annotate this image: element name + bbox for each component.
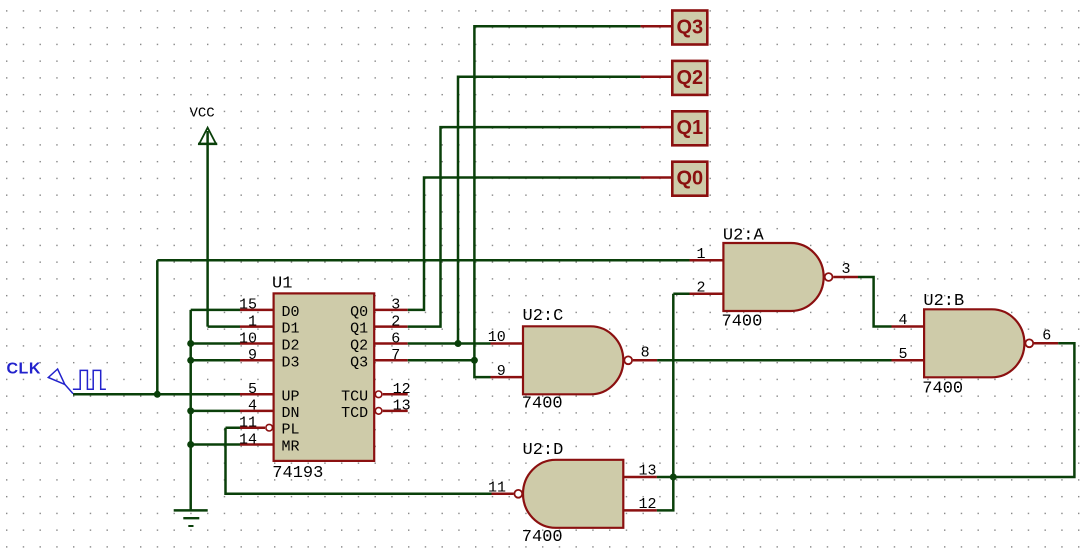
wire U2:D pin12 tie (657, 477, 673, 510)
pin 6 Q2 (374, 342, 408, 345)
node MR junction (187, 441, 194, 448)
svg-text:2: 2 (696, 279, 705, 296)
svg-text:D2: D2 (282, 338, 300, 355)
svg-text:CLK: CLK (7, 361, 41, 378)
pin 3 U2:A (833, 276, 858, 279)
svg-text:Q2: Q2 (676, 67, 703, 89)
svg-text:9: 9 (248, 347, 257, 364)
svg-text:D0: D0 (282, 304, 300, 321)
wire U2:C out to U2:B pin5 (657, 359, 891, 362)
ground (174, 510, 208, 526)
svg-text:11: 11 (239, 415, 257, 432)
svg-text:4: 4 (248, 398, 257, 415)
pin 2 U2:A (690, 292, 724, 295)
svg-text:6: 6 (391, 330, 400, 347)
svg-text:VCC: VCC (190, 106, 215, 122)
svg-text:7400: 7400 (522, 395, 563, 414)
svg-text:U2:A: U2:A (723, 227, 765, 246)
chip U1 74193 (274, 293, 375, 461)
terminal Q1 (641, 126, 673, 129)
nand gate U2:C 7400 (522, 307, 632, 413)
pin 1 D1 (240, 325, 274, 328)
svg-text:4: 4 (898, 312, 907, 329)
wire D0/D2/D3/DN/MR vertical bus to ground (189, 310, 192, 511)
node Q2 junction (455, 340, 462, 347)
pin 5 UP (240, 393, 274, 396)
generator CLK symbol (7, 361, 106, 394)
wire CLK net vertical riser (156, 260, 159, 394)
svg-text:TCU: TCU (341, 388, 368, 405)
pin 4 DN (240, 410, 274, 413)
pin 9 D3 (240, 359, 274, 362)
svg-text:7: 7 (391, 347, 400, 364)
svg-text:7400: 7400 (922, 380, 963, 399)
svg-text:PL: PL (282, 422, 300, 439)
pin 2 Q1 (374, 325, 408, 328)
pin 15 D0 (240, 309, 274, 312)
svg-text:U2:D: U2:D (523, 441, 564, 460)
pin 3 Q0 (374, 309, 408, 312)
svg-text:74193: 74193 (272, 464, 323, 483)
wire D3 branch (191, 359, 240, 362)
pin 6 U2:B (1034, 342, 1058, 345)
svg-text:Q3: Q3 (676, 16, 703, 38)
svg-text:3: 3 (842, 261, 851, 278)
svg-text:Q3: Q3 (350, 354, 368, 371)
nand gate U2:D 7400 (mirrored) (514, 441, 623, 547)
wire U2:A out to U2:B pin4 (858, 277, 892, 327)
pin 8 U2:C (633, 359, 657, 362)
svg-text:U1: U1 (272, 274, 292, 293)
svg-text:D3: D3 (282, 354, 300, 371)
svg-text:DN: DN (282, 405, 300, 422)
svg-text:8: 8 (641, 344, 650, 361)
svg-text:7400: 7400 (522, 528, 563, 547)
svg-text:UP: UP (282, 388, 300, 405)
svg-text:15: 15 (239, 297, 257, 314)
svg-text:9: 9 (497, 363, 506, 380)
node D2 junction (187, 340, 194, 347)
terminal Q3 (641, 25, 673, 28)
svg-text:10: 10 (239, 330, 257, 347)
pin 13 U2:D (623, 476, 657, 479)
wire Q3 to terminal and U2:C pin9 (408, 26, 641, 377)
svg-text:Q1: Q1 (676, 117, 703, 139)
node DN junction (187, 407, 194, 414)
terminal Q0 (641, 176, 673, 179)
wire CLK net horizontal to UP (73, 393, 240, 396)
wire U2:B out feedback (673, 343, 1074, 477)
terminal Q2 (641, 75, 673, 78)
pin 4 U2:B (892, 325, 925, 328)
pin 13 TCD (375, 408, 382, 415)
wire Q2 to terminal and U2:C pin10 (408, 77, 641, 344)
pin 7 Q3 (374, 359, 408, 362)
nand gate U2:B 7400 (922, 292, 1033, 399)
svg-text:11: 11 (488, 479, 506, 496)
wire MR branch (191, 443, 240, 446)
pin 12 TCU (375, 391, 382, 398)
svg-text:1: 1 (248, 313, 257, 330)
power VCC symbol (190, 106, 218, 327)
pin 10 D2 (240, 342, 274, 345)
wire net to U2:A pin 1 (157, 259, 689, 262)
wire D0 branch (191, 309, 240, 312)
pin 5 U2:B (892, 359, 925, 362)
node CLK/UP junction (154, 391, 161, 398)
svg-text:TCD: TCD (341, 405, 368, 422)
node Q3 junction (471, 357, 478, 364)
svg-text:Q2: Q2 (350, 338, 368, 355)
svg-text:Q1: Q1 (350, 321, 368, 338)
pin 1 U2:A (690, 259, 724, 262)
wire VCC to D1 (208, 325, 240, 328)
svg-text:5: 5 (898, 346, 907, 363)
pin 11 PL (240, 426, 265, 429)
wire U2:A pin2 from U2:D net (673, 294, 689, 477)
svg-text:Q0: Q0 (676, 168, 703, 190)
wire D2 branch (191, 342, 240, 345)
svg-text:12: 12 (638, 496, 656, 513)
svg-text:Q0: Q0 (350, 304, 368, 321)
wire DN branch (191, 410, 240, 413)
pin 9 U2:C (491, 376, 524, 379)
wire Q1 to terminal (408, 127, 641, 327)
svg-text:10: 10 (488, 329, 506, 346)
wire U2:D pin13 net (657, 476, 673, 479)
pin 11 U2:D (492, 493, 514, 496)
svg-text:U2:C: U2:C (523, 307, 564, 326)
svg-text:7400: 7400 (722, 313, 763, 332)
pin 12 U2:D (623, 509, 657, 512)
svg-text:2: 2 (391, 313, 400, 330)
svg-text:U2:B: U2:B (923, 292, 964, 311)
svg-text:13: 13 (393, 398, 411, 415)
svg-text:13: 13 (638, 463, 656, 480)
svg-text:D1: D1 (282, 321, 300, 338)
svg-text:14: 14 (239, 431, 257, 448)
nand gate U2:A 7400 (722, 227, 833, 332)
svg-text:1: 1 (696, 246, 705, 263)
svg-text:12: 12 (393, 381, 411, 398)
pin 14 MR (240, 443, 274, 446)
svg-text:3: 3 (391, 297, 400, 314)
wire Q0 to terminal (408, 178, 641, 310)
pin 10 U2:C (491, 342, 524, 345)
svg-text:5: 5 (248, 381, 257, 398)
wire PL to U2:D output (226, 428, 492, 494)
svg-text:6: 6 (1042, 328, 1051, 345)
node U2:D junction (670, 474, 677, 481)
node D3 junction (187, 357, 194, 364)
svg-text:MR: MR (282, 439, 300, 456)
